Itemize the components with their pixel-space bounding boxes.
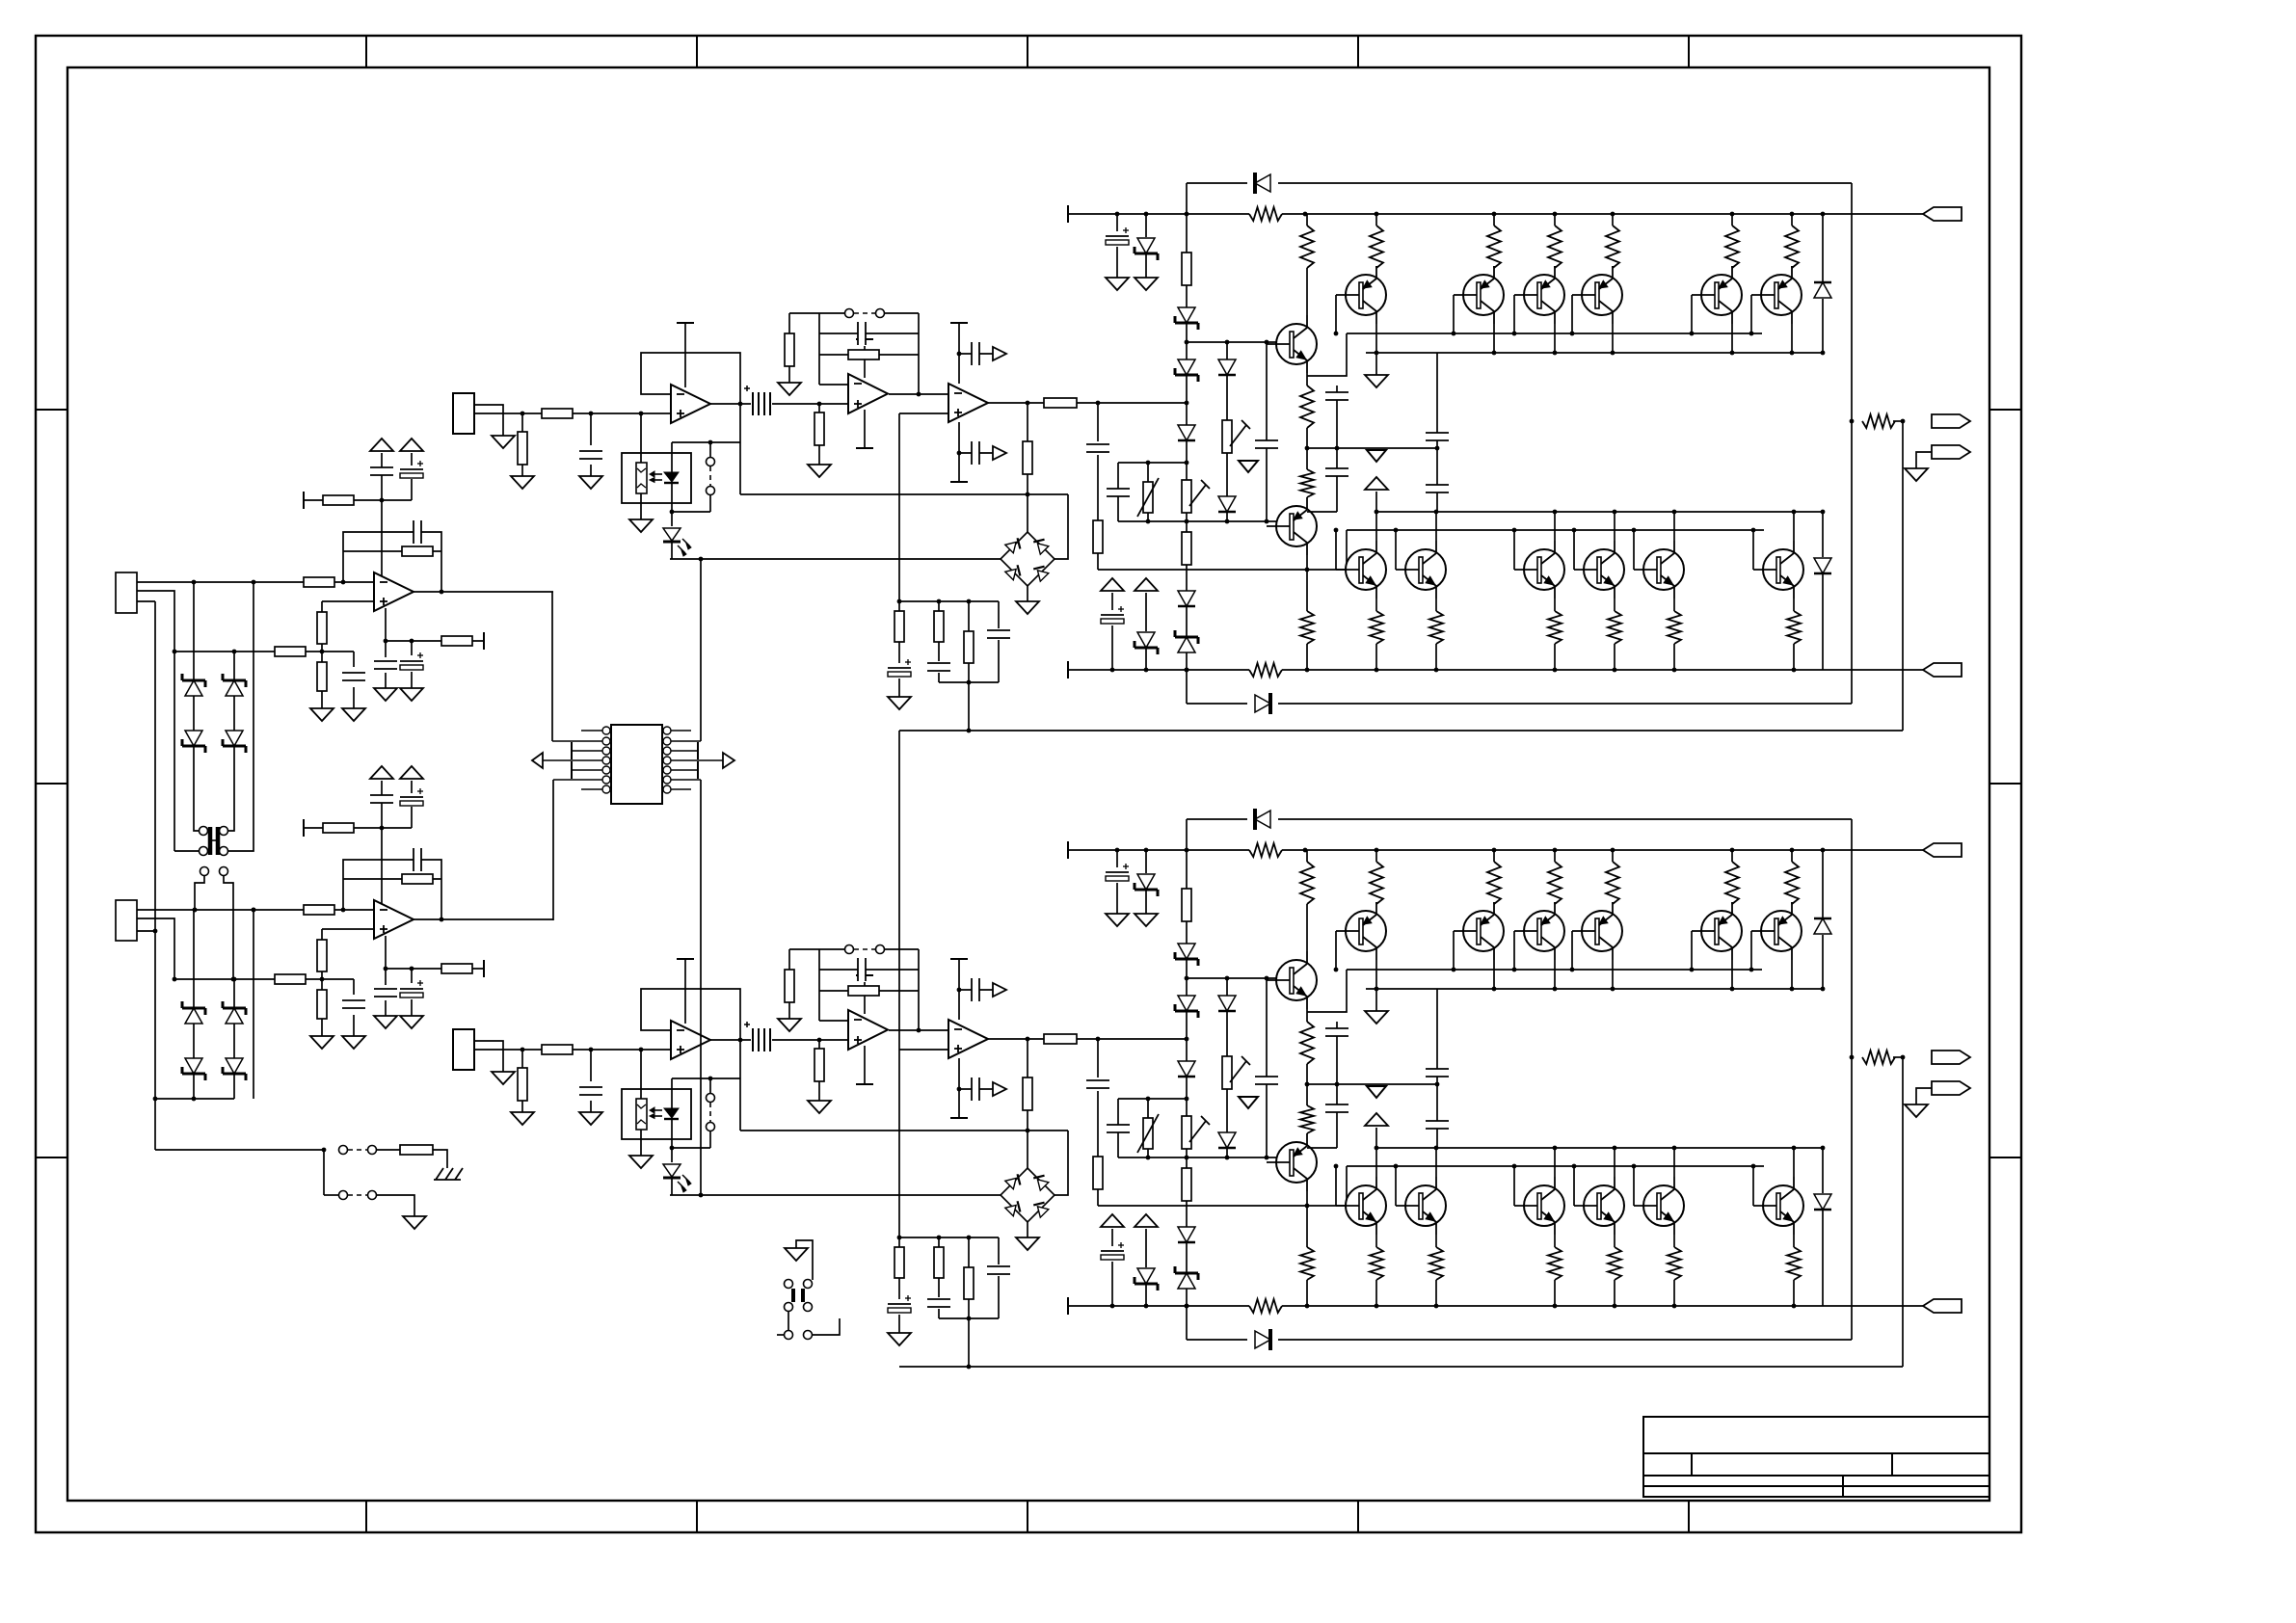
- op-amp U1A: [374, 572, 414, 611]
- wire: [1055, 1131, 1068, 1195]
- arrow: [1239, 461, 1258, 472]
- wire: [253, 910, 254, 1099]
- switch contact: [220, 867, 228, 876]
- wire op-amp supply pin: [385, 608, 387, 641]
- wire: [1893, 1056, 1895, 1058]
- wire: [1147, 463, 1149, 482]
- wire: [1307, 333, 1347, 376]
- wire: [1055, 494, 1068, 559]
- wire: [1111, 593, 1113, 610]
- wire base bus row1: [1347, 333, 1762, 334]
- wire: [155, 1149, 324, 1151]
- wire: [1893, 420, 1895, 422]
- wire: [1111, 1229, 1113, 1246]
- wire: [709, 1131, 711, 1148]
- wire base bus row2: [1347, 529, 1764, 531]
- wire cap ladder: [1436, 989, 1438, 1148]
- wire: [1554, 512, 1556, 541]
- resistor R25x: [1667, 1247, 1682, 1280]
- wire collector: [1306, 850, 1308, 862]
- wire: [640, 493, 642, 519]
- power arrow -: [400, 766, 423, 779]
- terminal: [856, 974, 873, 976]
- wire driver caps: [1336, 386, 1338, 448]
- pin wire: [553, 779, 602, 781]
- wire: [137, 930, 155, 932]
- wire: [521, 465, 523, 476]
- wire: [1612, 902, 1614, 904]
- relay bar: [791, 1289, 795, 1302]
- wire: [1554, 850, 1556, 862]
- diode D238: [1814, 918, 1831, 934]
- wire: [788, 313, 790, 333]
- ground: [511, 1112, 534, 1125]
- capacitor C11: [414, 519, 421, 545]
- zener diode D5: [185, 1008, 202, 1024]
- zener diode D1: [185, 680, 202, 696]
- resistor R137: [1249, 662, 1282, 678]
- capacitor C21: [414, 847, 421, 872]
- left flag: [532, 753, 543, 768]
- terminal: [697, 761, 699, 779]
- wire: [1118, 462, 1187, 464]
- wire: [1571, 295, 1573, 333]
- dashed link: [348, 1194, 367, 1196]
- wire: [322, 600, 374, 602]
- wire: [1375, 512, 1377, 541]
- terminal: [856, 1083, 873, 1085]
- border zone tick bottom 4: [1357, 1501, 1359, 1532]
- border zone tick top 4: [1357, 36, 1359, 67]
- wire: [1554, 960, 1556, 989]
- wire: [590, 465, 592, 476]
- power arrow -: [400, 439, 423, 451]
- wire: [1791, 960, 1793, 989]
- wire: [1375, 960, 1377, 989]
- wire: [1731, 266, 1733, 268]
- resistor R24: [317, 990, 327, 1019]
- wire bias column: [1186, 183, 1188, 704]
- polarized capacitor C coupling: [751, 392, 772, 415]
- capacitor C232: [1106, 1125, 1131, 1132]
- resistor R220: [964, 1267, 974, 1299]
- resistor R233: [1299, 862, 1315, 904]
- pin wire: [671, 769, 698, 771]
- border zone tick top 3: [1027, 36, 1028, 67]
- terminal: [303, 492, 305, 509]
- capacitor C23: [369, 795, 394, 803]
- wire: [228, 652, 234, 831]
- IC pin: [602, 785, 610, 793]
- resistor R218: [894, 1247, 904, 1278]
- wire: [385, 1000, 387, 1016]
- wire: [918, 313, 920, 394]
- wire: [1822, 574, 1824, 670]
- indicator LED: [663, 1164, 681, 1177]
- wire: [1673, 1235, 1675, 1247]
- wire power pin: [864, 410, 866, 448]
- wire right boundary: [1851, 183, 1853, 704]
- resistor R138: [1862, 413, 1895, 429]
- IC pin: [663, 727, 671, 734]
- wire: [321, 1019, 323, 1036]
- zener diode D232: [1178, 996, 1195, 1011]
- resistor R232: [1182, 1168, 1191, 1201]
- wire: [1916, 452, 1932, 468]
- wire: [1147, 1099, 1149, 1118]
- wire: [884, 948, 919, 950]
- resistor R115: [848, 350, 879, 359]
- diode D237: [1218, 1132, 1236, 1148]
- wire diode column: [1226, 342, 1228, 521]
- ground: [374, 1016, 397, 1028]
- border zone tick left 1: [36, 409, 67, 411]
- wire: [137, 581, 374, 583]
- wire: [521, 1050, 523, 1068]
- wire: [1346, 1166, 1348, 1206]
- wire: [1614, 512, 1615, 541]
- border zone tick top 1: [365, 36, 367, 67]
- wire: [377, 1149, 400, 1151]
- resistor R234: [1299, 1022, 1315, 1064]
- pin wire: [572, 750, 602, 752]
- resistor R24x: [1369, 862, 1384, 904]
- wire: [1097, 1189, 1099, 1206]
- trimmer RV22: [1222, 1056, 1232, 1089]
- zener diode D3: [185, 731, 202, 746]
- wire: [939, 681, 999, 683]
- wire: [1731, 850, 1733, 862]
- wire feedback: [1902, 1057, 1904, 1367]
- wire non-inverting input: [899, 1049, 948, 1051]
- resistor R21: [304, 905, 334, 915]
- zener diode D2: [226, 680, 243, 696]
- stage-2 input connector P1: [453, 393, 474, 434]
- wire: [819, 1020, 848, 1022]
- terminal: [856, 447, 873, 449]
- border zone tick right 3: [1989, 1157, 2021, 1158]
- border zone tick bottom 1: [365, 1501, 367, 1532]
- relay contact: [220, 827, 228, 836]
- wire: [322, 928, 374, 930]
- wire: [386, 968, 484, 970]
- output transistor Q2row2: [1584, 1185, 1624, 1226]
- capacitor C211: [578, 1087, 603, 1095]
- supply connector V-2: [1923, 1299, 1962, 1313]
- wire: [772, 1039, 848, 1041]
- wire: [672, 1147, 710, 1149]
- wire: [1822, 214, 1824, 281]
- wire: [1573, 1166, 1575, 1206]
- border zone tick right 2: [1989, 783, 2021, 785]
- wire: [304, 499, 412, 501]
- wire top boundary: [1187, 818, 1247, 820]
- wire: [1513, 1166, 1515, 1206]
- relay contact: [785, 1280, 793, 1289]
- wire feedback run: [899, 730, 1903, 732]
- title block divider: [1891, 1453, 1893, 1476]
- wire: [1435, 1235, 1437, 1247]
- terminal: [571, 742, 573, 759]
- wire: [1731, 324, 1733, 353]
- wire: [174, 850, 199, 852]
- wire: [323, 1150, 325, 1195]
- wire: [998, 601, 1000, 628]
- wire: [411, 781, 413, 828]
- capacitor C238: [1100, 1247, 1125, 1261]
- wire: [1145, 1285, 1147, 1306]
- wire: [1147, 1149, 1149, 1157]
- resistor R25x: [1547, 1247, 1562, 1280]
- wire emitter rail: [1098, 569, 1347, 571]
- wire zobel rail: [899, 600, 999, 602]
- output transistor Q2row2: [1405, 1185, 1446, 1226]
- resistor R236: [1093, 1157, 1103, 1189]
- zener diode D235: [1178, 1273, 1195, 1289]
- resistor R1f: [402, 546, 433, 556]
- pin wire: [671, 740, 701, 742]
- wire: [709, 1078, 711, 1093]
- resistor R239: [1299, 1247, 1315, 1280]
- output transistor Q1row1: [1582, 275, 1622, 315]
- power flag: [993, 983, 1006, 997]
- resistor R114: [785, 333, 794, 366]
- terminal: [1067, 205, 1069, 223]
- wire: [137, 591, 174, 652]
- title block outline: [1643, 1417, 1989, 1497]
- capacitor C135: [1425, 485, 1450, 492]
- resistor R14x: [1605, 226, 1620, 268]
- terminal: [1067, 1297, 1069, 1315]
- wire power pin: [864, 975, 866, 1014]
- wire: [1793, 1148, 1795, 1177]
- terminal: [950, 1117, 968, 1119]
- wire: [1027, 474, 1028, 532]
- wire: [1375, 492, 1377, 512]
- ground: [1905, 1104, 1928, 1117]
- wire: [1791, 324, 1793, 353]
- resistor R60: [400, 1145, 433, 1155]
- wire left bus: [154, 601, 156, 1150]
- resistor R219: [934, 1247, 944, 1278]
- resistor R133: [1299, 226, 1315, 268]
- wire: [998, 1276, 1000, 1318]
- wire feedback run: [899, 1366, 1903, 1368]
- wire base bus row2: [1347, 1165, 1764, 1167]
- wire: [1027, 1039, 1028, 1078]
- wire: [321, 929, 323, 940]
- wire: [195, 876, 204, 910]
- wire: [411, 999, 413, 1016]
- output connector OUT2-: [1932, 1081, 1970, 1095]
- pin wire: [671, 788, 691, 790]
- wire: [321, 644, 323, 662]
- wire: [1116, 883, 1118, 914]
- output transistor Q2row1: [1701, 911, 1742, 951]
- photoresistor element: [636, 463, 647, 493]
- diode D234: [1178, 1227, 1195, 1242]
- wire top boundary: [1187, 182, 1247, 184]
- zener diode D135: [1178, 637, 1195, 652]
- wire: [710, 403, 753, 405]
- wire: [1453, 931, 1455, 970]
- terminal: [677, 322, 694, 324]
- wire: [1554, 266, 1556, 268]
- wire: [1335, 295, 1337, 333]
- input connector J1: [116, 572, 137, 613]
- contact: [707, 487, 715, 495]
- resistor R2f: [402, 874, 433, 884]
- right flag: [723, 753, 734, 768]
- wire feedback lower: [343, 878, 441, 880]
- power arrow: [1135, 578, 1158, 591]
- wire: [1306, 904, 1308, 951]
- wire: [938, 1237, 940, 1247]
- wire: [788, 366, 790, 383]
- ground: [1135, 914, 1158, 926]
- wire: [1895, 420, 1903, 422]
- diode D134: [1178, 591, 1195, 606]
- wire: [898, 413, 900, 611]
- zener diode D4: [226, 731, 243, 746]
- wire: [1336, 448, 1338, 512]
- op-amp U2C: [848, 1010, 888, 1050]
- ground: [629, 519, 653, 532]
- wire: [1750, 931, 1752, 970]
- wire collector: [1306, 214, 1308, 226]
- resistor R25x: [1607, 1247, 1622, 1280]
- terminal: [1067, 661, 1069, 678]
- wire power pin: [684, 959, 686, 1024]
- wire cross feed: [898, 731, 900, 1050]
- wire: [818, 1081, 820, 1101]
- wire: [1822, 299, 1824, 353]
- test point: [845, 945, 854, 954]
- supply connector V+2: [1923, 843, 1962, 857]
- wire: [1691, 295, 1693, 333]
- terminal: [1067, 841, 1069, 859]
- contact: [707, 1094, 715, 1103]
- wire bias column: [1186, 819, 1188, 1340]
- wire: [898, 1315, 900, 1333]
- output transistor Q1row2: [1405, 549, 1446, 590]
- wire base bus lower: [1118, 1157, 1277, 1158]
- diode D133: [1178, 425, 1195, 440]
- arrow: [1367, 450, 1386, 462]
- capacitor C233: [1085, 1080, 1110, 1088]
- wire: [1306, 555, 1308, 611]
- capacitor C13: [369, 467, 394, 475]
- wire feedback top rail: [789, 312, 845, 314]
- diode D122: [1255, 695, 1270, 712]
- IC pin: [663, 785, 671, 793]
- capacitor C235: [1425, 1121, 1450, 1129]
- wire: [958, 1058, 960, 1118]
- light arrows: [651, 1109, 662, 1111]
- wire feedback top rail: [789, 948, 845, 950]
- wire: [1554, 1280, 1556, 1306]
- resistor R215: [848, 986, 879, 996]
- wire: [1493, 850, 1495, 862]
- diode D233: [1178, 1061, 1195, 1077]
- wire: [819, 354, 919, 356]
- transistor Q11: [1276, 324, 1317, 364]
- wire: [1493, 324, 1495, 353]
- dashed link: [211, 839, 217, 841]
- wire: [385, 673, 387, 688]
- wire: [1493, 902, 1495, 904]
- arrow: [1367, 1086, 1386, 1098]
- wire feedback loop: [641, 353, 740, 404]
- IC pin: [602, 757, 610, 764]
- wire: [1612, 960, 1614, 989]
- capacitor C213: [972, 977, 979, 1002]
- resistor R15x: [1607, 611, 1622, 644]
- wire negative rail: [1068, 669, 1923, 671]
- capacitor C112: [858, 321, 866, 346]
- resistor R117: [1023, 441, 1032, 474]
- wire: [1375, 902, 1377, 904]
- wire: [1493, 960, 1495, 989]
- wire to chain B: [700, 780, 702, 1195]
- resistor R24x: [1724, 862, 1740, 904]
- wire from channel B op-amp: [552, 780, 554, 920]
- wire: [640, 413, 642, 463]
- zener diode D240: [1137, 1268, 1155, 1284]
- supply connector V-1: [1923, 663, 1962, 677]
- power flag: [993, 347, 1006, 360]
- ground: [629, 1156, 653, 1168]
- power arrow: [1101, 578, 1124, 591]
- wire right boundary: [1851, 819, 1853, 1340]
- capacitor C111: [578, 451, 603, 459]
- diode D136: [1218, 359, 1236, 375]
- pin wire: [671, 759, 723, 761]
- terminal: [677, 958, 694, 960]
- wire: [1493, 214, 1495, 226]
- resistor R119: [934, 611, 944, 642]
- sheet outer border: [36, 36, 2021, 1532]
- wire: [819, 384, 848, 386]
- wire: [998, 1237, 1000, 1264]
- ground: [400, 1016, 423, 1028]
- wire: [959, 1088, 993, 1090]
- border zone tick top 2: [696, 36, 698, 67]
- wire: [1335, 1166, 1337, 1206]
- output transistor Q2row2: [1643, 1185, 1684, 1226]
- wire: [228, 582, 254, 851]
- wire: [1375, 1128, 1377, 1148]
- wire: [1097, 455, 1099, 520]
- wire power pin: [864, 1046, 866, 1084]
- wire: [137, 909, 374, 911]
- wire to output stage: [1077, 1038, 1187, 1040]
- output transistor Q2row1: [1346, 911, 1386, 951]
- wire: [671, 483, 673, 526]
- dashed link: [854, 312, 875, 314]
- stage-2 input connector P2: [453, 1029, 474, 1070]
- capacitor C236: [1324, 1028, 1349, 1036]
- wire: [1306, 1191, 1308, 1247]
- terminal: [950, 958, 968, 960]
- wire: [1375, 850, 1377, 862]
- resistor R213: [814, 1049, 824, 1081]
- capacitor C231: [1254, 1077, 1279, 1084]
- wire: [1375, 1280, 1377, 1306]
- op-amp U1D: [948, 384, 988, 422]
- resistor R14x: [1547, 226, 1562, 268]
- wire: [1614, 599, 1615, 611]
